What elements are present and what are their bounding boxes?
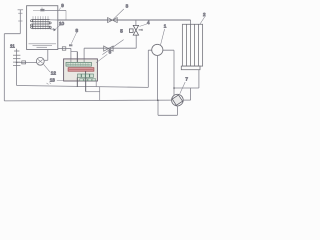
plate coil green bottom (segmented) (78, 74, 94, 77)
expansion valve drop (135, 35, 137, 48)
water level (29, 44, 57, 48)
exchanger bottom pipes (86, 91, 100, 93)
plate coil red middle (68, 68, 94, 72)
pump 12 (36, 57, 44, 65)
float valve at tank top (33, 9, 40, 11)
top left standpipe (18, 9, 24, 11)
node vapor stub drop (65, 10, 67, 20)
svg-text:10: 10 (59, 21, 65, 26)
valve 3 (108, 18, 118, 23)
tank vapor outlet stub (45, 9, 66, 11)
pipe into exchanger interior (70, 59, 72, 63)
suction line (top pipe) (58, 19, 191, 21)
liquid line (second pipe) (84, 47, 136, 49)
line B (bottom long pipe) (4, 99, 171, 102)
left downpipe (3, 34, 5, 101)
line A (suction return) (17, 86, 149, 88)
branch to dark drop (71, 51, 77, 53)
condenser outlet pipe (198, 70, 200, 88)
svg-text:12: 12 (51, 70, 57, 75)
four-way valve 7 (172, 94, 184, 106)
svg-text:4: 4 (147, 20, 150, 25)
tank outlet 8 (58, 47, 71, 49)
svg-text:8: 8 (76, 28, 79, 33)
valve stem oblique (102, 40, 123, 55)
valve bottom bypass (176, 106, 178, 115)
expansion valve 4 (129, 25, 142, 35)
coil bottom exit arrow (50, 28, 53, 30)
heat exchanger box 13 (64, 59, 98, 81)
compressor bottom leg (156, 55, 158, 100)
svg-text:6: 6 (109, 49, 112, 54)
condenser feed drop (190, 20, 192, 24)
compressor U1 circle 1 (152, 44, 163, 55)
regulating valve on liquid line (104, 46, 113, 51)
tank (ice water tank) (27, 6, 58, 50)
plate coil green top (66, 62, 91, 66)
svg-text:13: 13 (50, 78, 56, 83)
svg-text:1: 1 (164, 23, 167, 28)
condenser 2 (182, 24, 202, 66)
standpipe elbow (4, 33, 20, 35)
coil end loops (31, 20, 52, 29)
svg-text:5: 5 (120, 28, 123, 33)
pump discharge to tank (44, 59, 48, 61)
coil suction row exit (50, 19, 58, 21)
valve right port (183, 99, 190, 101)
riser 11 with flanges (16, 49, 18, 86)
compressor line (148, 49, 174, 51)
svg-text:9: 9 (61, 3, 64, 8)
compressor left leg (147, 50, 149, 87)
svg-text:2: 2 (203, 12, 206, 17)
svg-text:3: 3 (126, 4, 129, 9)
svg-text:7: 7 (185, 76, 188, 81)
compressor discharge drop (173, 50, 175, 95)
red-to-green connector (85, 71, 87, 74)
svg-text:11: 11 (10, 43, 15, 48)
pump suction line (17, 61, 37, 63)
evaporator coil 10 (grid) (33, 16, 48, 29)
drop into exchanger (70, 48, 72, 59)
exchanger outlet dark pipes (76, 78, 78, 87)
partial bottom plate row (80, 79, 96, 81)
